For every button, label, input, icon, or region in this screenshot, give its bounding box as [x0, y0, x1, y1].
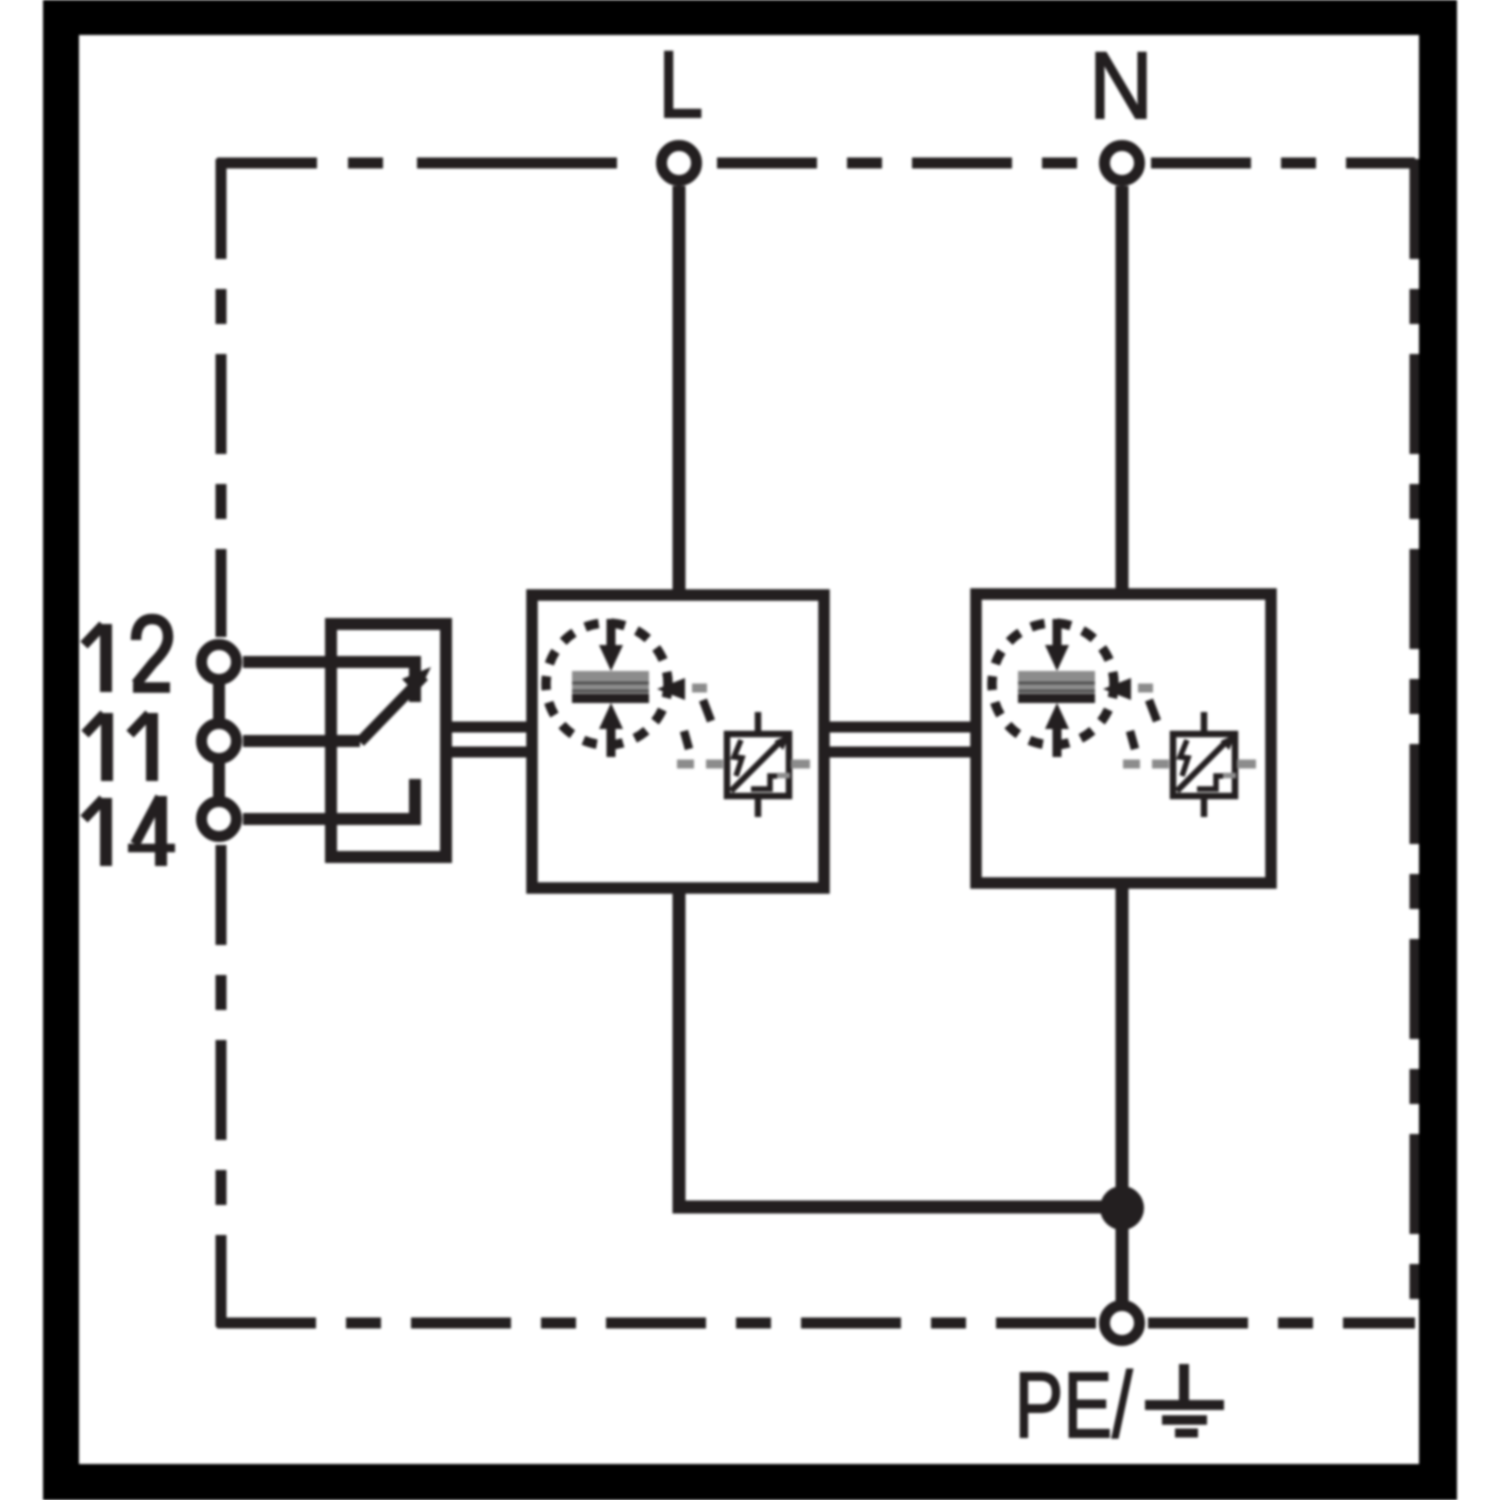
SPD block 2 internals	[992, 619, 1256, 817]
ground symbol stem	[1179, 1364, 1189, 1402]
spark gap electrodes gray stack	[1018, 671, 1095, 694]
varistor diagonal with arrowhead	[731, 741, 781, 791]
varistor box bottom stub	[1201, 797, 1208, 817]
frame bottom bar	[43, 1464, 1457, 1500]
terminal PE	[1105, 1306, 1140, 1341]
frame right bar	[1419, 0, 1457, 1500]
terminal 11	[202, 724, 237, 759]
electrode top arrow	[607, 619, 616, 648]
varistor box right gray stub	[1237, 760, 1256, 769]
wire N vertical	[1116, 186, 1129, 596]
wire from left block bottom to junction	[679, 890, 1122, 1207]
spark gap dashed circle	[992, 623, 1114, 745]
spark gap electrodes gray stack	[572, 671, 649, 694]
svg-text:PE/: PE/	[1015, 1353, 1133, 1457]
terminal L	[662, 146, 697, 181]
electrode bottom arrow	[1053, 729, 1062, 757]
wire L vertical	[673, 186, 686, 597]
contact 14 wire with NO hook	[243, 779, 415, 819]
trigger gray dash right of arrow	[1138, 684, 1153, 693]
label 12	[84, 619, 170, 692]
contact 11 wire (common)	[243, 735, 360, 747]
enclosure dash-dot border top	[217, 158, 656, 169]
enclosure dash-dot border right	[1410, 159, 1421, 1327]
varistor box top stub	[1201, 712, 1208, 733]
mechanical link left block to right block (double line)	[826, 727, 978, 752]
spark gap dashed circle	[546, 623, 668, 745]
frame top bar	[43, 0, 1457, 35]
svg-text:N: N	[1089, 33, 1153, 139]
junction node (N to PE)	[1100, 1186, 1144, 1230]
ground symbol bars	[1145, 1400, 1224, 1410]
control line black dashes	[1130, 700, 1157, 749]
switch box (remote signalling contact)	[331, 624, 446, 857]
varistor trigger box	[1173, 734, 1235, 796]
control line gray dashes	[677, 760, 723, 769]
varistor box right gray stub	[791, 760, 810, 769]
enclosure dash-dot border left	[216, 159, 227, 637]
terminal N	[1105, 146, 1140, 181]
trigger arrow	[657, 678, 685, 700]
electrode top arrow	[1053, 619, 1062, 648]
switch blade	[360, 676, 424, 742]
varistor trigger box	[727, 734, 789, 796]
terminal 14	[202, 802, 237, 837]
mechanical link switch to left block (double line)	[448, 727, 532, 752]
spark gap electrode black bar	[572, 694, 649, 703]
step waveform	[751, 776, 777, 789]
electrode bottom arrow	[607, 729, 616, 757]
lightning zigzag	[1180, 740, 1188, 776]
trigger arrow	[1103, 678, 1131, 700]
remote signalling terminal link wire	[213, 662, 225, 819]
step waveform	[1197, 776, 1223, 789]
label 14	[84, 796, 175, 866]
spark gap electrode black bar	[1018, 694, 1095, 703]
label 11	[85, 713, 152, 781]
wire from right block bottom to PE	[1116, 885, 1129, 1304]
varistor diagonal with arrowhead	[1177, 741, 1227, 791]
varistor box bottom stub	[755, 797, 762, 817]
terminal 12	[202, 645, 237, 680]
frame left bar	[43, 0, 79, 1500]
enclosure dash-dot border bottom	[217, 1318, 1096, 1329]
SPD block 1 internals (triggered spark gap + varistor trigger circuit)	[546, 619, 810, 817]
SPD block 2 box (N path)	[976, 594, 1271, 883]
SPD block 1 box (L path)	[532, 595, 824, 888]
lightning zigzag	[734, 740, 742, 776]
varistor box top stub	[755, 712, 762, 733]
switch blade arrowhead	[402, 667, 431, 695]
svg-text:L: L	[658, 32, 703, 138]
trigger gray dash right of arrow	[692, 684, 707, 693]
control line gray dashes	[1123, 760, 1169, 769]
contact 12 wire with NC stub	[243, 662, 415, 702]
control line black dashes	[684, 700, 711, 749]
